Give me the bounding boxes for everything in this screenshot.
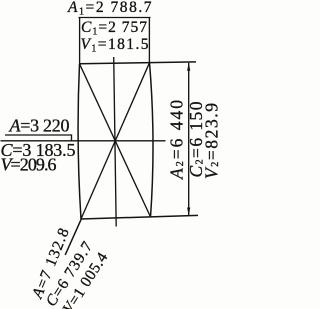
svg-text:A2=6 440: A2=6 440	[167, 100, 187, 180]
node A1 label	[67, 0, 152, 18]
svg-text:A1=2 788.7: A1=2 788.7	[67, 0, 152, 18]
node C2 label rotated	[186, 101, 206, 177]
node V1 label	[81, 36, 149, 55]
wire left arc	[78, 64, 81, 219]
wire top dimension line	[79, 17, 151, 19]
wire diagonal TR-BL	[81, 63, 150, 219]
wire top edge	[80, 62, 197, 64]
wire left dimension line	[5, 135, 72, 141]
node C label bottom rotated	[43, 238, 96, 309]
wire vertical centerline	[114, 57, 117, 227]
node A2 label rotated	[167, 100, 187, 180]
node V label left	[1, 154, 57, 174]
wire right dimension line	[188, 63, 190, 216]
wire bottom leader line	[65, 219, 81, 255]
arrow down	[187, 208, 190, 216]
wire horizontal centerline	[1, 140, 166, 142]
svg-text:C1=2 757: C1=2 757	[81, 19, 147, 38]
node V label bottom rotated	[60, 249, 112, 309]
node A label left	[9, 115, 70, 135]
wire bottom edge	[81, 215, 198, 219]
node C1 label	[81, 19, 147, 38]
node V2 label rotated	[202, 103, 222, 179]
wire box right border	[148, 18, 150, 63]
svg-text:V1=181.5: V1=181.5	[81, 36, 149, 55]
svg-text:A=3 220: A=3 220	[9, 115, 70, 135]
arrow up	[187, 63, 190, 71]
node C label left	[1, 140, 76, 160]
wire box left border	[79, 18, 81, 64]
wire diagonal TL-BR	[80, 64, 151, 217]
svg-text:V=209.6: V=209.6	[1, 154, 57, 174]
node A label bottom rotated	[29, 225, 73, 301]
wire right arc	[150, 63, 154, 217]
